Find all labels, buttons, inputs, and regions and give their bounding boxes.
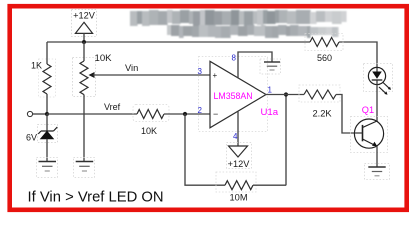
svg-text:−: − (213, 109, 218, 119)
svg-text:+: + (213, 71, 218, 80)
ground (zener) (37, 158, 58, 178)
svg-text:1: 1 (268, 86, 273, 95)
resistor 10M (216, 172, 286, 202)
ground (pot) (74, 158, 95, 178)
zener diode 6V (26, 114, 58, 161)
svg-text:8: 8 (232, 53, 237, 62)
wire: top +12V rail (47, 42, 377, 68)
watermark blur band (130, 10, 347, 38)
svg-text:U1a: U1a (261, 107, 279, 118)
svg-text:10K: 10K (141, 126, 157, 136)
svg-text:10K: 10K (95, 53, 113, 64)
transistor Q1 (351, 105, 388, 167)
wire: Vref rail (47, 102, 137, 114)
wire: Vin (93, 63, 210, 75)
svg-text:2.2K: 2.2K (313, 108, 333, 118)
svg-text:Q1: Q1 (362, 105, 374, 115)
pin 8 wire to ground (232, 52, 272, 78)
resistor 10K (Vref series) (133, 105, 210, 137)
svg-text:If Vin > Vref LED ON: If Vin > Vref LED ON (28, 190, 164, 206)
node: pin2 feedback junction (183, 112, 187, 116)
resistor 2.2K (299, 85, 355, 133)
node: output junction (284, 92, 288, 96)
node: +12V junction (82, 40, 86, 44)
node: Vref junction (45, 112, 49, 116)
svg-text:3: 3 (198, 67, 203, 76)
wire: feedback up-right (285, 95, 287, 186)
svg-text:+12V: +12V (228, 159, 251, 169)
wire: feedback down-left (185, 114, 225, 185)
svg-text:10M: 10M (230, 192, 248, 202)
power +12V bottom (227, 143, 252, 170)
svg-text:2: 2 (198, 106, 203, 115)
svg-text:4: 4 (233, 132, 238, 141)
resistor R 1K (31, 42, 56, 114)
pin 4 wire (233, 112, 238, 146)
svg-text:Vref: Vref (104, 102, 121, 112)
resistor 560 (305, 34, 343, 64)
wire: LED to Q1 collector (376, 85, 378, 122)
ground (Q1 emitter) (365, 164, 390, 180)
svg-text:6V: 6V (26, 133, 37, 143)
svg-text:LM358AN: LM358AN (214, 91, 253, 101)
svg-text:Vin: Vin (125, 63, 138, 73)
svg-text:+12V: +12V (73, 10, 96, 20)
ground (pin 8) (260, 59, 281, 74)
svg-text:1K: 1K (31, 61, 42, 71)
power +12V top (72, 10, 97, 43)
input terminal (27, 111, 47, 116)
wire: output to 2.2K (265, 94, 304, 96)
svg-text:560: 560 (317, 53, 332, 63)
potentiometer 10K (73, 42, 113, 161)
LED D1 (364, 64, 393, 95)
op-amp U1a LM358AN (198, 57, 279, 132)
